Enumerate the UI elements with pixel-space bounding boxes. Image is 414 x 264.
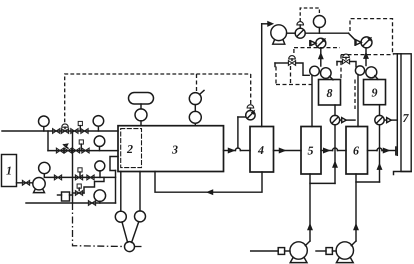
wire: cooler right edge (115, 171, 117, 204)
wire: control valve drop leg (238, 117, 246, 148)
wire: vessel 1 outlet (17, 182, 33, 184)
valve row3 c (87, 175, 94, 180)
gauge circle F2 (189, 105, 201, 126)
gauge circle G2 (94, 190, 106, 203)
square instrument row3 (78, 168, 82, 178)
valve row3 a (54, 175, 61, 180)
control valve VL with dome (275, 56, 309, 76)
control valve VR with dome (337, 54, 356, 67)
valve at vessel 1 outlet (22, 180, 29, 185)
capsule instrument above box3 (129, 93, 154, 105)
gauge O with needle arrow (316, 38, 326, 48)
dashed drop to dome K (250, 74, 252, 105)
valve row1 a (53, 129, 60, 134)
dashed signal bus top left (65, 74, 251, 122)
wire: P3 discharge arrow (354, 225, 358, 230)
label 3 (172, 146, 178, 154)
gauge circle F1 with tick (189, 90, 204, 104)
dashed drop x341 (340, 55, 342, 80)
wire: drop from box3 bottom to circle H2 (139, 172, 141, 211)
label 2 (127, 145, 133, 153)
label 1 (6, 167, 11, 175)
wire: suction from box6 to blower C (357, 75, 359, 127)
tick B to box8 (330, 76, 334, 80)
circle J (125, 242, 135, 252)
label 5 (308, 147, 314, 155)
pump P2 (290, 242, 307, 263)
wire: branch to riser left (310, 182, 335, 184)
label 6 (353, 147, 359, 155)
dashed line y47.6 (294, 47, 340, 49)
gauge circle on row1 left (39, 116, 50, 131)
blower circle A (310, 66, 320, 76)
label 4 (258, 146, 264, 154)
pump P3 (336, 242, 353, 263)
wire: row2 (48, 150, 118, 152)
gauge 4 with needle (375, 115, 384, 124)
wire: branch to riser right (356, 181, 380, 183)
box 5 (301, 127, 321, 175)
box 2 dashed (121, 129, 142, 168)
dashed left package loop (276, 48, 312, 85)
wire: drop from box3 bottom to circle H1 (120, 172, 122, 212)
label 7 (403, 114, 409, 122)
wire: converge H1 to J (122, 222, 128, 242)
wire: box4 bottom return to box3 (155, 172, 262, 195)
wire: suction from box5 to blower A (311, 76, 313, 127)
box 9 (364, 80, 386, 105)
wire: gauge3 down through main line (333, 125, 337, 184)
wire: main line box6 to box7 (368, 147, 396, 155)
wire: box7 bottom line (394, 172, 412, 175)
wire: box5 bottom down (309, 174, 311, 241)
gauge circle above pump P0 (39, 162, 50, 177)
wire: main line box3 to box4 (224, 148, 251, 152)
valve bottom line (88, 201, 95, 206)
box 7 (401, 54, 411, 172)
wire: gauge L to diagonal (305, 32, 348, 34)
dashed signal dome L to circle M (300, 8, 319, 22)
gauge L with needle (295, 28, 305, 38)
wire: vertical line left of box7 (396, 54, 398, 156)
gauge circle above row3 (95, 161, 105, 178)
box 8 (319, 80, 341, 106)
gauge 3 with needle (330, 115, 339, 124)
valve row4 with square instrument (75, 184, 82, 195)
dash-dot drain line (73, 203, 125, 247)
box 4 (250, 127, 274, 173)
nozzle flag right of gauge4 (384, 118, 397, 123)
pump P0 (33, 178, 45, 193)
blower circle C (355, 66, 364, 75)
circle H2 (135, 211, 146, 222)
blower circle B (321, 68, 332, 79)
valve row2 b (72, 148, 79, 153)
box 3 (118, 126, 224, 172)
control valve row1 with dome actuator (61, 124, 68, 134)
wire: box6 bottom down (355, 174, 357, 241)
tick D to box9 (375, 76, 378, 80)
wire: P3 entry diagonal (351, 241, 356, 246)
pump P2 inlet with square (251, 248, 290, 255)
label 8 (327, 89, 333, 97)
gauge K with dome actuator (246, 105, 255, 120)
wire: box4 to pump P1 (262, 22, 273, 127)
wire: stub from box3 left into cooler column (110, 157, 118, 171)
vessel 1 (2, 155, 17, 187)
wire: box8 to gauge3 (334, 105, 336, 115)
square instrument row1 (78, 121, 82, 131)
valve row2 a (56, 148, 63, 153)
gauge N with needle arrow (361, 37, 372, 48)
circle H1 (115, 211, 126, 222)
wire: staircase row4 up to row3 (84, 177, 104, 193)
wire: box7 top extension (394, 53, 402, 55)
pump P1 (271, 25, 287, 44)
blower discharge riser right with up arrow (364, 48, 368, 66)
wire: feed line row1 (2, 130, 118, 132)
blower circle D (366, 67, 377, 78)
square instrument row2 (79, 140, 83, 151)
gauge circle on row2 (94, 136, 105, 151)
wire: P2 discharge arrow (308, 225, 312, 230)
wire: bottom line (26, 202, 116, 204)
wire: main riser (72, 131, 74, 203)
wire: diagonal into gauge N (349, 33, 356, 40)
wire: stub right of circle J (135, 246, 142, 248)
wire: P1 discharge (287, 32, 296, 34)
valve row1 c (81, 129, 88, 134)
wire: P2 entry diagonal (305, 241, 310, 246)
gauge circle on row1 right (93, 116, 104, 131)
valve row1 b (71, 129, 78, 134)
wire: riser row1 to row2 (47, 131, 49, 151)
dashed box 9 package top (350, 19, 393, 54)
box 6 (346, 127, 368, 175)
wire: row3 pump discharge (45, 176, 115, 178)
wire: box9 to gauge4 (379, 105, 381, 116)
instrument circle M (313, 16, 325, 34)
nozzle flag right of gauge3 (340, 118, 355, 123)
dashed drop to F1 (196, 74, 198, 92)
three-way valve row2 with flag (64, 144, 72, 153)
label 9 (372, 89, 378, 97)
nozzle flag into gauge N (355, 40, 361, 46)
pump P3 inlet with square (316, 248, 336, 255)
valve row3 b (75, 175, 82, 180)
valve row2 c (82, 148, 89, 153)
wire: row4 (73, 192, 85, 194)
dome actuator above gauge L (297, 22, 304, 29)
dashed between boxes 8 and 9 (354, 80, 356, 110)
blower discharge riser left with up arrow (319, 48, 323, 66)
wire: main line box4 to box5 (274, 149, 302, 153)
gauge circle E1 (135, 104, 147, 126)
square box left of riser (58, 192, 73, 201)
wire: gauge4 down through main line (378, 125, 382, 182)
nozzle flag into gauge O (310, 41, 316, 46)
dashed line y54.6 (341, 54, 394, 56)
wire: main line box5 to box6 (321, 148, 346, 152)
wire: converge H2 to J (132, 222, 139, 243)
